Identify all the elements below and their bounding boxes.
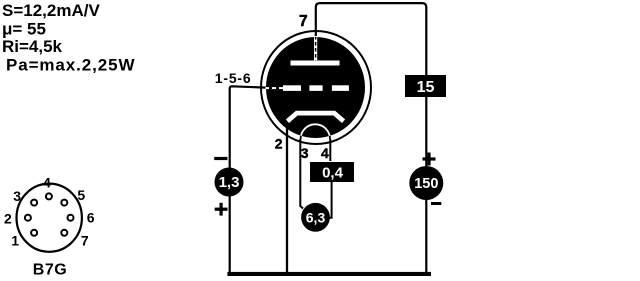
heater current box 0,4 bbox=[310, 162, 354, 182]
svg-text:3: 3 bbox=[13, 188, 21, 204]
svg-text:6: 6 bbox=[87, 210, 95, 226]
wire cathode pin 2 lead down bbox=[286, 124, 288, 273]
svg-text:6,3: 6,3 bbox=[306, 209, 326, 225]
svg-text:7: 7 bbox=[81, 232, 89, 248]
anode current box 15 bbox=[405, 75, 446, 97]
minus sign above 1,3 bbox=[214, 157, 227, 160]
B7G pin 2 hole bbox=[25, 215, 31, 221]
svg-text:4: 4 bbox=[321, 145, 329, 161]
B7G socket outline bbox=[17, 184, 82, 252]
svg-text:S=12,2mA/V: S=12,2mA/V bbox=[2, 1, 100, 20]
heater voltage circle 6,3 bbox=[301, 203, 330, 232]
wire heater pin 3 lead bbox=[300, 139, 303, 209]
svg-text:Pa=max.2,25W: Pa=max.2,25W bbox=[6, 55, 135, 74]
svg-text:μ= 55: μ= 55 bbox=[2, 20, 46, 39]
B7G pin 1 hole bbox=[31, 230, 37, 236]
svg-text:4: 4 bbox=[43, 175, 51, 191]
plus sign above 150 bbox=[423, 157, 436, 160]
svg-text:5: 5 bbox=[77, 187, 85, 203]
wire bottom rail bbox=[227, 272, 431, 276]
grid lead halo inside disk bbox=[266, 87, 284, 89]
pin 7 lead halo inside disk bbox=[314, 36, 317, 61]
anode voltage circle 150 bbox=[409, 166, 443, 200]
svg-text:1: 1 bbox=[11, 232, 19, 248]
grid dashes (white) bbox=[283, 85, 301, 91]
heater loop black arc (outside disk) bbox=[301, 124, 330, 139]
svg-text:2: 2 bbox=[275, 135, 283, 151]
tube V1 inner black disk bbox=[266, 37, 365, 138]
B7G pin 3 hole bbox=[31, 200, 37, 206]
heater loop white arc (inside disk) bbox=[301, 124, 330, 139]
B7G pin 4 hole bbox=[46, 193, 52, 199]
B7G pin 5 hole bbox=[61, 200, 67, 206]
svg-text:1-5-6: 1-5-6 bbox=[215, 70, 252, 86]
svg-text:3: 3 bbox=[301, 145, 309, 161]
B7G pin 7 hole bbox=[61, 230, 67, 236]
plus sign below 1,3 bbox=[215, 208, 228, 211]
svg-text:7: 7 bbox=[299, 13, 308, 30]
svg-text:15: 15 bbox=[417, 79, 435, 96]
svg-text:Ri=4,5k: Ri=4,5k bbox=[2, 37, 63, 56]
wire grid lead horizontal + left branch down bbox=[230, 86, 266, 273]
anode plate (white bar) bbox=[291, 61, 340, 66]
minus sign below 150 bbox=[431, 202, 441, 205]
wire heater pin 4 lead bbox=[329, 139, 331, 161]
svg-text:150: 150 bbox=[414, 176, 438, 192]
svg-text:B7G: B7G bbox=[33, 262, 67, 279]
cathode (white chevron) bbox=[287, 113, 343, 121]
svg-text:0,4: 0,4 bbox=[322, 165, 344, 182]
tube V1 envelope outer circle bbox=[261, 31, 371, 144]
wire top rail from anode pin 7 to HT line bbox=[316, 3, 427, 273]
svg-text:2: 2 bbox=[4, 211, 12, 227]
B7G pin 6 hole bbox=[68, 215, 74, 221]
svg-text:1,3: 1,3 bbox=[219, 174, 240, 191]
grid voltage circle 1,3 bbox=[215, 168, 244, 197]
